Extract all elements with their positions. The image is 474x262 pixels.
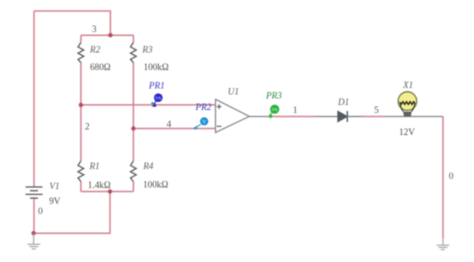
svg-text:2: 2 [85, 121, 90, 132]
svg-text:12V: 12V [399, 127, 415, 137]
svg-text:V: V [202, 120, 206, 126]
svg-text:100kΩ: 100kΩ [143, 179, 168, 189]
svg-text:0: 0 [38, 206, 43, 217]
svg-text:V1: V1 [49, 181, 59, 191]
svg-text:VA: VA [155, 96, 162, 101]
svg-text:PR3: PR3 [265, 91, 282, 101]
svg-text:5: 5 [374, 105, 379, 116]
svg-text:X1: X1 [402, 80, 413, 90]
svg-text:1.4kΩ: 1.4kΩ [88, 180, 111, 190]
svg-text:R2: R2 [89, 44, 101, 54]
svg-text:1: 1 [293, 105, 298, 116]
svg-text:VA: VA [272, 107, 279, 112]
svg-text:PR1: PR1 [148, 81, 165, 91]
svg-text:100kΩ: 100kΩ [144, 62, 169, 72]
svg-text:U1: U1 [228, 87, 239, 97]
svg-text:3: 3 [92, 24, 97, 35]
svg-text:4: 4 [167, 119, 172, 130]
svg-text:R3: R3 [141, 44, 153, 54]
svg-text:9V: 9V [49, 196, 61, 206]
svg-text:D1: D1 [337, 97, 349, 107]
svg-text:PR2: PR2 [195, 102, 212, 112]
svg-text:R1: R1 [89, 161, 100, 171]
svg-text:0: 0 [449, 171, 454, 182]
svg-text:R4: R4 [142, 161, 154, 171]
svg-text:680Ω: 680Ω [90, 62, 111, 72]
